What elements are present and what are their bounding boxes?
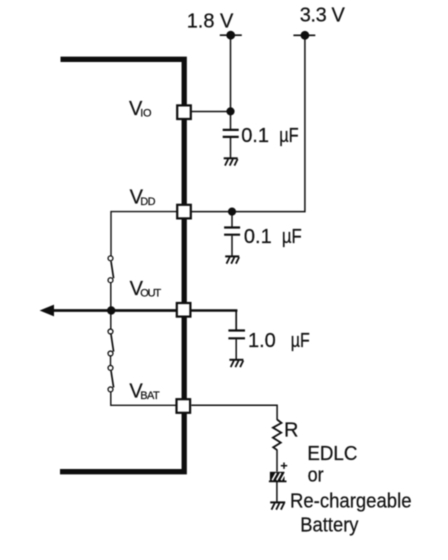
svg-text:0.1: 0.1: [244, 226, 272, 248]
switch S2 top contact: [108, 329, 113, 334]
ground GND4 battery: [270, 502, 285, 509]
wire node to capacitor C2: [231, 212, 233, 227]
battery plus sign: [281, 463, 287, 469]
wire VOUT node down to switch S2: [110, 313, 112, 329]
wire 1.8V down to VIO node: [230, 35, 232, 111]
resistor R zigzag: [273, 420, 282, 451]
pin square VIO: [177, 105, 191, 119]
supply 1.8V dot: [226, 31, 235, 40]
ground GND1: [224, 158, 238, 165]
switch S1 arm: [111, 261, 114, 278]
pin square VDD: [177, 205, 191, 219]
wire VIO pin to node: [191, 111, 230, 113]
node VOUT junction dot: [107, 306, 115, 314]
switch S1 bottom contact: [108, 278, 113, 283]
wire S1 to VOUT node: [110, 283, 112, 308]
wire arrow to VOUT pin: [51, 309, 177, 312]
wire VOUT pin right to capacitor C3: [191, 309, 237, 312]
wire node to capacitor C1: [230, 111, 232, 129]
switch S2 bottom contact: [108, 351, 113, 356]
svg-text:R: R: [284, 420, 298, 442]
svg-text:Battery: Battery: [300, 514, 358, 536]
svg-text:1.8 V: 1.8 V: [187, 11, 234, 33]
arrow VOUT output: [40, 305, 54, 317]
svg-text:DD: DD: [140, 196, 155, 208]
wire VDD pin left to switch chain: [111, 212, 177, 256]
node VDD junction dot: [228, 208, 236, 216]
svg-text:0.1: 0.1: [241, 125, 269, 147]
switch S2 arm: [111, 334, 114, 351]
battery top electrode hatched: [270, 472, 285, 481]
supply 3.3V dot: [301, 31, 310, 40]
supply 1.8V bar: [220, 34, 242, 36]
capacitor C2 0.1uF plates: [224, 226, 240, 228]
node VIO junction dot: [226, 107, 234, 115]
supply 3.3V bar: [293, 34, 315, 36]
wire C2 to ground: [231, 236, 233, 256]
wire C3 to ground: [235, 339, 237, 359]
svg-text:IO: IO: [140, 108, 152, 120]
pin square VBAT: [177, 399, 191, 413]
wire 3.3V down to VDD wire: [191, 35, 305, 211]
switch S3 top contact: [108, 365, 113, 370]
switch S3 arm: [111, 371, 114, 388]
ground GND2: [225, 256, 239, 263]
wire VBAT pin right to resistor: [191, 405, 277, 420]
battery bottom plate: [269, 480, 287, 482]
capacitor C1 0.1uF plates: [223, 129, 239, 131]
svg-text:or: or: [308, 464, 324, 486]
svg-text:3.3 V: 3.3 V: [300, 4, 346, 26]
svg-text:Re-chargeable: Re-chargeable: [290, 490, 412, 512]
wire S2 to S3: [110, 356, 112, 365]
svg-text:EDLC: EDLC: [307, 443, 357, 465]
wire S3 to VBAT wire: [111, 392, 177, 405]
switch S1 top contact: [108, 256, 113, 261]
capacitor C3 1.0uF plates: [228, 329, 245, 331]
svg-text:µF: µF: [282, 226, 302, 248]
svg-text:OUT: OUT: [140, 288, 161, 300]
svg-text:1.0: 1.0: [248, 330, 276, 352]
svg-text:BAT: BAT: [140, 390, 160, 402]
wire battery to ground: [276, 481, 278, 502]
ground GND3: [229, 360, 243, 367]
svg-text:µF: µF: [279, 125, 299, 147]
IC body outline: [60, 59, 184, 471]
wire resistor to battery: [276, 450, 278, 472]
svg-text:µF: µF: [291, 330, 310, 352]
wire C1 to ground: [230, 138, 232, 158]
switch S3 bottom contact: [108, 387, 113, 392]
pin square VOUT: [177, 303, 191, 317]
